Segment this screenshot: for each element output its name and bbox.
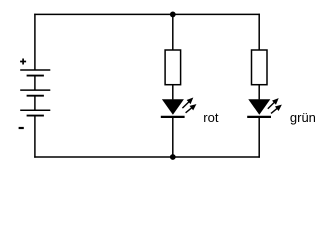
LED D1 anode triangle (162, 99, 184, 115)
LED D2 cathode bar (247, 116, 271, 118)
junction dot bottom (node B) (170, 154, 176, 160)
label - (battery negative) (19, 127, 24, 129)
svg-text:rot: rot (203, 110, 219, 125)
LED D1 cathode bar (161, 116, 185, 118)
wire left rail upper (top wire to battery +) (34, 14, 36, 70)
label + (battery positive) (20, 59, 26, 65)
battery B1 cell 1 plates (20, 70, 50, 76)
battery B1 cell 2 plates (20, 90, 50, 96)
battery B1 cell 3 plates (20, 110, 50, 115)
wire from resistor R1 to LED D1 (172, 85, 174, 100)
wire middle branch from top dot to resistor R1 (172, 14, 174, 50)
LED D2 light emission arrows (268, 99, 281, 113)
svg-text:grün: grün (290, 110, 316, 125)
wire between battery cell 1 and cell 2 (34, 76, 36, 91)
resistor R2 (252, 50, 268, 85)
wire from LED D1 to bottom dot (172, 117, 174, 157)
wire left rail lower (battery - to bottom wire) (34, 116, 36, 158)
wire top horizontal (node +V) (34, 13, 260, 15)
wire bottom horizontal (node 0V) (34, 156, 260, 158)
LED D2 anode triangle (248, 99, 270, 115)
wire from resistor R2 to LED D2 (258, 85, 260, 100)
resistor R1 (165, 50, 181, 85)
junction dot top (node A) (170, 12, 176, 18)
wire from LED D2 to bottom wire (258, 117, 260, 157)
LED D1 light emission arrows (182, 98, 195, 112)
wire between battery cell 2 and cell 3 (34, 96, 36, 111)
wire right rail from top wire to resistor R2 (258, 14, 260, 50)
